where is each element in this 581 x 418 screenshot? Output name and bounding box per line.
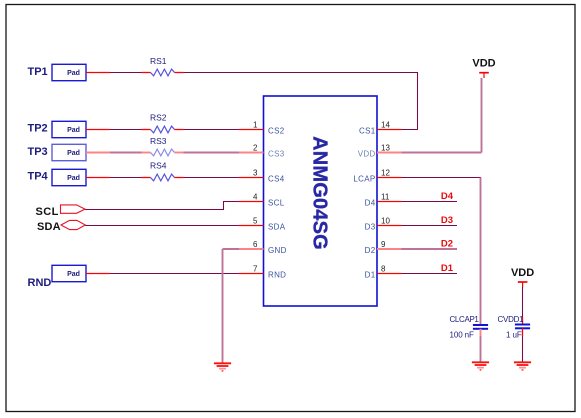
wire net D4 [402, 201, 458, 203]
svg-text:Pad: Pad [67, 150, 80, 157]
svg-text:100 nF: 100 nF [450, 331, 475, 340]
svg-text:3: 3 [253, 169, 258, 178]
svg-text:CLCAP1: CLCAP1 [450, 315, 480, 324]
pin name D3 [365, 222, 376, 231]
IC pin 8 (D1) stub [377, 273, 402, 275]
IC pin 7 (RND) stub [239, 273, 264, 275]
power symbol VDD right [511, 267, 534, 288]
pin number 5 [253, 217, 258, 226]
IC pin 13 (VDD) stub [377, 152, 402, 154]
svg-text:11: 11 [381, 193, 390, 202]
port label SCL [36, 206, 59, 218]
svg-text:ANMG04SG: ANMG04SG [309, 136, 331, 250]
IC pin 6 (GND) stub [239, 248, 264, 250]
testpoint label TP2 [28, 122, 48, 134]
pad TP3 [52, 144, 86, 160]
pin number 4 [253, 193, 258, 202]
wire TP4 pad to RS4 [86, 177, 151, 179]
ground under IC [214, 363, 231, 371]
wire VDD to pin 13 [402, 78, 482, 153]
pin name D1 [365, 270, 376, 279]
wire LCAP pin 12 to CLCAP1 [402, 178, 482, 326]
pin number 7 [253, 265, 258, 274]
resistor RS4 [150, 161, 175, 181]
svg-text:TP1: TP1 [28, 66, 48, 78]
wire RS1 to CS1 pin 14 (net TP1) [175, 73, 419, 131]
value 100 nF [450, 331, 475, 340]
pad TP1 [52, 64, 86, 80]
svg-text:D1: D1 [441, 263, 454, 274]
wire SCL to pin 4 [85, 201, 239, 210]
net label D4 [441, 191, 454, 202]
pin name CS3 [268, 149, 285, 158]
pin number 3 [253, 169, 258, 178]
IC pin 14 (CS1) stub [377, 129, 402, 131]
IC ANMG04SG body [264, 96, 378, 306]
pin name D4 [365, 198, 376, 207]
svg-text:2: 2 [253, 144, 258, 153]
value 1 uF [506, 331, 522, 340]
net label D2 [441, 239, 453, 250]
pin name CS2 [268, 126, 285, 135]
svg-text:D2: D2 [441, 239, 453, 250]
wire CLCAP1 to ground [480, 329, 482, 362]
ground under CLCAP1 [472, 362, 489, 370]
wire TP1 pad to RS1 [86, 72, 151, 74]
pin name RND [268, 270, 286, 279]
wire RS3 to pin 2 [175, 152, 240, 154]
svg-text:SDA: SDA [37, 221, 61, 233]
pin name D2 [365, 246, 376, 255]
IC pin 3 (CS4) stub [239, 177, 264, 179]
port symbol SCL [61, 205, 86, 213]
IC pin 11 (D4) stub [377, 201, 402, 203]
IC pin 5 (SDA) stub [239, 225, 264, 227]
wire net D2 [402, 248, 458, 250]
capacitor CVDD1 [498, 315, 531, 329]
pad RND [52, 265, 86, 281]
svg-text:14: 14 [381, 121, 390, 130]
pin number 13 [381, 144, 390, 153]
pin name GND [268, 246, 287, 255]
testpoint label TP1 [28, 66, 48, 78]
svg-text:CS1: CS1 [359, 126, 376, 135]
svg-text:GND: GND [268, 246, 287, 255]
wire RS4 to pin 3 [175, 177, 240, 179]
svg-text:10: 10 [381, 217, 390, 226]
IC pin 1 (CS2) stub [239, 129, 264, 131]
pin number 1 [253, 121, 258, 130]
pin number 10 [381, 217, 390, 226]
pin number 9 [381, 240, 386, 249]
svg-text:CS2: CS2 [268, 126, 285, 135]
svg-text:RS1: RS1 [150, 56, 167, 66]
svg-text:D3: D3 [365, 222, 376, 231]
svg-text:CS4: CS4 [268, 174, 285, 183]
resistor RS1 [150, 56, 175, 76]
wire CVDD1 to ground [522, 328, 524, 362]
resistor RS2 [150, 113, 175, 133]
net label D1 [441, 263, 454, 274]
svg-text:RS3: RS3 [150, 136, 167, 146]
power symbol VDD top [472, 58, 495, 79]
wire TP3 pad to RS3 [86, 152, 151, 154]
svg-text:Pad: Pad [67, 70, 80, 77]
svg-text:D1: D1 [365, 270, 376, 279]
pad TP4 [52, 169, 86, 185]
pad label RND [28, 277, 52, 289]
svg-text:SCL: SCL [36, 206, 59, 218]
port label SDA [37, 221, 61, 233]
capacitor CLCAP1 [450, 315, 489, 329]
svg-text:D2: D2 [365, 246, 376, 255]
svg-text:SDA: SDA [268, 222, 286, 231]
ground under CVDD1 [514, 362, 531, 370]
svg-text:Pad: Pad [67, 175, 80, 182]
wire TP2 pad to RS2 [86, 129, 151, 131]
svg-text:Pad: Pad [67, 127, 80, 134]
svg-text:VDD: VDD [511, 267, 534, 279]
svg-text:8: 8 [381, 265, 386, 274]
svg-text:TP3: TP3 [28, 146, 48, 158]
pin name SCL [268, 198, 285, 207]
pin number 11 [381, 193, 390, 202]
svg-text:D3: D3 [441, 215, 453, 226]
port symbol SDA [61, 220, 85, 229]
testpoint label TP3 [28, 146, 48, 158]
wire RS2 to pin 1 [175, 129, 240, 131]
svg-text:4: 4 [253, 193, 258, 202]
svg-text:RS2: RS2 [150, 113, 167, 123]
pin number 8 [381, 265, 386, 274]
IC pin 10 (D3) stub [377, 225, 402, 227]
svg-text:1: 1 [253, 121, 258, 130]
svg-text:1 uF: 1 uF [506, 331, 522, 340]
wire net D3 [402, 225, 458, 227]
svg-text:CS3: CS3 [268, 149, 285, 158]
wire VDD to CVDD1 [522, 287, 524, 325]
wire net D1 [402, 273, 458, 275]
pin name VDD [358, 149, 376, 158]
resistor RS3 [150, 136, 175, 156]
testpoint label TP4 [28, 170, 49, 182]
IC pin 2 (CS3) stub [239, 152, 264, 154]
pin number 6 [253, 240, 258, 249]
IC pin 4 (SCL) stub [239, 201, 264, 203]
svg-text:TP4: TP4 [28, 170, 49, 182]
pin name CS4 [268, 174, 285, 183]
pin number 2 [253, 144, 258, 153]
pin number 14 [381, 121, 390, 130]
svg-text:Pad: Pad [67, 271, 80, 278]
svg-text:D4: D4 [441, 191, 454, 202]
svg-text:12: 12 [381, 169, 390, 178]
pin name CS1 [359, 126, 376, 135]
wire GND pin 6 down to ground [223, 249, 240, 363]
IC pin 12 (LCAP) stub [377, 177, 402, 179]
svg-text:9: 9 [381, 240, 386, 249]
svg-text:RND: RND [268, 270, 286, 279]
svg-text:5: 5 [253, 217, 258, 226]
svg-text:TP2: TP2 [28, 122, 48, 134]
svg-text:VDD: VDD [358, 149, 376, 158]
svg-text:7: 7 [253, 265, 258, 274]
pin number 12 [381, 169, 390, 178]
wire RND pad to pin 7 [86, 273, 239, 275]
net label D3 [441, 215, 453, 226]
svg-text:13: 13 [381, 144, 390, 153]
pin name SDA [268, 222, 286, 231]
pin name LCAP [353, 174, 375, 183]
svg-text:RND: RND [28, 277, 52, 289]
IC pin 9 (D2) stub [377, 248, 402, 250]
svg-text:LCAP: LCAP [353, 174, 375, 183]
svg-text:RS4: RS4 [150, 161, 167, 171]
svg-text:SCL: SCL [268, 198, 285, 207]
svg-text:VDD: VDD [472, 58, 495, 70]
svg-text:CVDD1: CVDD1 [498, 315, 525, 324]
svg-text:6: 6 [253, 240, 258, 249]
wire SDA to pin 5 [85, 225, 239, 227]
svg-text:D4: D4 [365, 198, 376, 207]
pad TP2 [52, 121, 86, 137]
